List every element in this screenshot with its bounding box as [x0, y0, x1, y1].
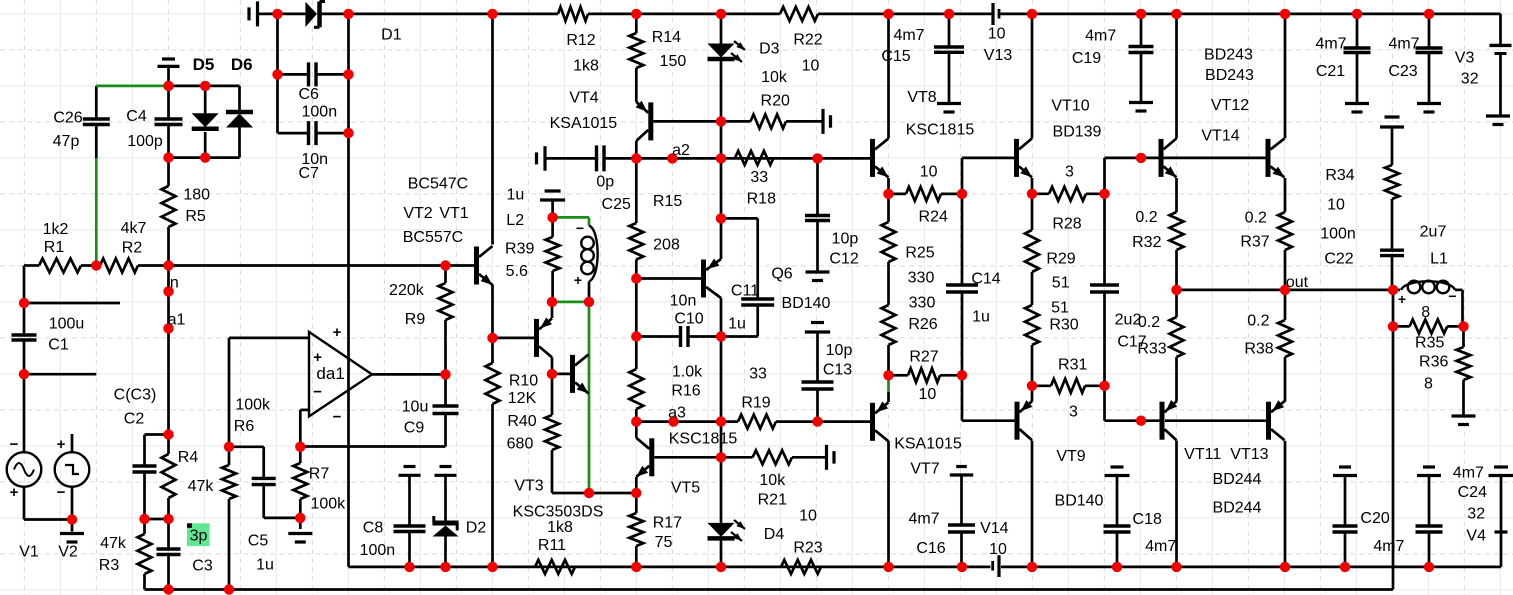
svg-text:C10: C10 [674, 311, 703, 328]
svg-text:V3: V3 [1455, 50, 1475, 67]
svg-text:R1: R1 [44, 239, 65, 256]
svg-text:R37: R37 [1240, 234, 1269, 251]
svg-text:10k: 10k [761, 69, 788, 86]
svg-text:C2: C2 [124, 411, 145, 428]
svg-text:KSC1815: KSC1815 [906, 122, 975, 139]
svg-text:−: − [57, 484, 66, 501]
svg-text:D4: D4 [764, 526, 785, 543]
svg-text:R14: R14 [652, 29, 681, 46]
svg-text:47k: 47k [188, 478, 215, 495]
svg-text:1u: 1u [728, 316, 746, 333]
svg-text:0.2: 0.2 [1245, 210, 1267, 227]
svg-text:C6: C6 [298, 86, 319, 103]
svg-text:100p: 100p [127, 133, 163, 150]
svg-text:R30: R30 [1049, 317, 1078, 334]
svg-text:VT9: VT9 [1056, 448, 1085, 465]
svg-text:3: 3 [1065, 164, 1074, 181]
svg-text:208: 208 [653, 237, 680, 254]
svg-text:33: 33 [750, 169, 768, 186]
svg-text:V2: V2 [58, 544, 78, 561]
svg-text:10: 10 [989, 541, 1007, 558]
svg-text:C3: C3 [192, 558, 213, 575]
svg-text:R24: R24 [919, 208, 948, 225]
svg-text:C13: C13 [823, 362, 852, 379]
svg-text:+: + [1398, 291, 1406, 307]
svg-text:R25: R25 [905, 245, 934, 262]
svg-text:12K: 12K [508, 390, 537, 407]
svg-text:0.2: 0.2 [1247, 313, 1269, 330]
svg-text:D6: D6 [231, 55, 253, 74]
svg-text:51: 51 [1052, 275, 1070, 292]
svg-text:4m7: 4m7 [1315, 35, 1346, 52]
svg-text:R39: R39 [505, 241, 534, 258]
svg-text:1u: 1u [256, 557, 274, 574]
svg-text:C20: C20 [1360, 510, 1389, 527]
svg-text:VT7: VT7 [910, 461, 939, 478]
svg-text:10p: 10p [832, 231, 859, 248]
svg-text:180: 180 [183, 187, 210, 204]
svg-text:KSC1815: KSC1815 [669, 431, 738, 448]
svg-text:C12: C12 [829, 251, 858, 268]
svg-text:C15: C15 [881, 48, 910, 65]
svg-text:33: 33 [749, 366, 767, 383]
svg-text:−: − [1448, 288, 1456, 304]
svg-text:R35: R35 [1415, 335, 1444, 352]
svg-text:BD140: BD140 [782, 295, 831, 312]
svg-text:R33: R33 [1137, 341, 1166, 358]
svg-text:R22: R22 [793, 32, 822, 49]
svg-text:4m7: 4m7 [1388, 35, 1419, 52]
svg-text:R7: R7 [309, 466, 330, 483]
svg-text:3p: 3p [190, 528, 208, 545]
svg-text:BD140: BD140 [1055, 493, 1104, 510]
svg-text:4m7: 4m7 [908, 511, 939, 528]
svg-text:R6: R6 [234, 418, 255, 435]
svg-text:R3: R3 [99, 557, 120, 574]
svg-text:4m7: 4m7 [1145, 538, 1176, 555]
svg-text:10: 10 [988, 25, 1006, 42]
svg-text:D1: D1 [381, 26, 402, 43]
svg-text:out: out [1286, 274, 1309, 291]
svg-text:R23: R23 [793, 540, 822, 557]
svg-text:−: − [576, 220, 584, 236]
svg-text:R5: R5 [185, 208, 206, 225]
svg-text:C16: C16 [916, 540, 945, 557]
svg-text:C4: C4 [126, 108, 147, 125]
svg-text:VT11: VT11 [1184, 446, 1221, 463]
svg-text:32: 32 [1461, 71, 1479, 88]
svg-text:1k8: 1k8 [547, 519, 573, 536]
svg-text:VT12: VT12 [1211, 97, 1249, 114]
svg-text:+: + [333, 324, 342, 341]
svg-text:V13: V13 [984, 47, 1013, 64]
svg-text:Q6: Q6 [771, 266, 792, 283]
svg-text:4k7: 4k7 [121, 220, 147, 237]
svg-text:VT3: VT3 [514, 478, 543, 495]
svg-text:1k2: 1k2 [43, 221, 69, 238]
svg-text:10: 10 [802, 58, 820, 75]
svg-text:R16: R16 [671, 383, 700, 400]
svg-text:C26: C26 [53, 110, 82, 127]
svg-text:100u: 100u [49, 316, 85, 333]
svg-text:R34: R34 [1325, 167, 1354, 184]
svg-text:C22: C22 [1324, 251, 1353, 268]
svg-text:R15: R15 [653, 193, 682, 210]
svg-text:R36: R36 [1419, 353, 1448, 370]
svg-text:1k8: 1k8 [573, 58, 599, 75]
svg-text:10: 10 [919, 386, 937, 403]
svg-text:BD243: BD243 [1204, 47, 1253, 64]
svg-text:5.6: 5.6 [506, 263, 528, 280]
svg-text:330: 330 [908, 270, 935, 287]
svg-text:BC547C: BC547C [408, 176, 468, 193]
svg-text:−: − [10, 436, 19, 453]
svg-text:10p: 10p [826, 342, 853, 359]
svg-text:D3: D3 [759, 41, 780, 58]
svg-text:−: − [313, 384, 322, 401]
svg-text:R12: R12 [566, 32, 595, 49]
svg-text:C5: C5 [248, 533, 269, 550]
svg-text:0p: 0p [596, 173, 614, 190]
svg-text:KSA1015: KSA1015 [894, 436, 962, 453]
svg-text:1u: 1u [972, 309, 990, 326]
svg-text:4m7: 4m7 [1373, 538, 1404, 555]
svg-text:3: 3 [1069, 404, 1078, 421]
svg-text:C19: C19 [1072, 50, 1101, 67]
svg-text:680: 680 [507, 436, 534, 453]
svg-text:C25: C25 [602, 196, 631, 213]
svg-text:R2: R2 [122, 240, 143, 257]
svg-text:C23: C23 [1388, 63, 1417, 80]
svg-text:L1: L1 [1430, 251, 1448, 268]
svg-text:1u: 1u [507, 187, 525, 204]
svg-text:10k: 10k [759, 472, 786, 489]
svg-text:C9: C9 [404, 420, 425, 437]
svg-text:C24: C24 [1458, 484, 1487, 501]
svg-text:32: 32 [1467, 505, 1485, 522]
svg-text:a2: a2 [672, 142, 690, 159]
svg-text:in: in [166, 275, 178, 292]
svg-text:C14: C14 [971, 271, 1000, 288]
svg-text:R21: R21 [758, 492, 787, 509]
svg-text:R19: R19 [741, 395, 770, 412]
svg-text:VT2: VT2 [403, 205, 432, 222]
svg-text:R4: R4 [178, 449, 199, 466]
svg-text:BC557C: BC557C [403, 229, 463, 246]
svg-text:8: 8 [1424, 375, 1433, 392]
svg-text:10: 10 [1327, 197, 1345, 214]
svg-text:R17: R17 [653, 515, 682, 532]
svg-text:+: + [57, 436, 66, 453]
svg-text:−: − [333, 409, 342, 426]
svg-text:R10: R10 [509, 373, 538, 390]
svg-text:BD139: BD139 [1053, 124, 1102, 141]
svg-text:R9: R9 [405, 311, 426, 328]
svg-text:10: 10 [920, 164, 938, 181]
svg-text:C18: C18 [1133, 511, 1162, 528]
svg-text:4m7: 4m7 [1085, 28, 1116, 45]
svg-text:VT4: VT4 [569, 90, 598, 107]
svg-text:a1: a1 [168, 312, 186, 329]
svg-text:150: 150 [660, 53, 687, 70]
svg-text:D2: D2 [466, 520, 487, 537]
svg-text:R40: R40 [507, 413, 536, 430]
svg-text:BD244: BD244 [1213, 471, 1262, 488]
svg-text:VT8: VT8 [907, 89, 936, 106]
svg-text:1.0k: 1.0k [672, 364, 703, 381]
svg-text:V1: V1 [19, 544, 39, 561]
svg-text:R32: R32 [1132, 234, 1161, 251]
svg-text:R26: R26 [908, 316, 937, 333]
svg-text:4m7: 4m7 [893, 27, 924, 44]
svg-text:C7: C7 [298, 165, 319, 182]
svg-text:R11: R11 [538, 537, 566, 554]
svg-text:V4: V4 [1466, 528, 1486, 545]
svg-text:0.2: 0.2 [1135, 209, 1157, 226]
svg-text:C11: C11 [731, 283, 759, 300]
svg-text:100n: 100n [1320, 226, 1356, 243]
svg-text:0.2: 0.2 [1138, 314, 1160, 331]
svg-text:R20: R20 [761, 93, 790, 110]
svg-text:10u: 10u [402, 399, 429, 416]
svg-text:KSC3503DS: KSC3503DS [513, 504, 604, 521]
svg-text:+: + [313, 349, 322, 366]
svg-text:8: 8 [1421, 304, 1430, 321]
svg-text:2u7: 2u7 [1420, 224, 1447, 241]
svg-text:330: 330 [909, 295, 936, 312]
svg-text:BD244: BD244 [1213, 500, 1262, 517]
svg-text:VT1: VT1 [439, 205, 468, 222]
svg-text:R28: R28 [1052, 216, 1081, 233]
svg-text:75: 75 [655, 534, 673, 551]
svg-text:D5: D5 [193, 55, 215, 74]
svg-text:a3: a3 [668, 405, 686, 422]
svg-text:220k: 220k [389, 282, 425, 299]
svg-text:R29: R29 [1046, 251, 1075, 268]
svg-text:VT13: VT13 [1230, 446, 1268, 463]
svg-text:4m7: 4m7 [1453, 465, 1484, 482]
svg-text:C1: C1 [48, 337, 69, 354]
svg-text:10: 10 [799, 508, 817, 525]
svg-text:R27: R27 [909, 349, 938, 366]
svg-text:100k: 100k [310, 495, 346, 512]
svg-text:C(C3): C(C3) [114, 387, 157, 404]
svg-text:VT14: VT14 [1201, 128, 1239, 145]
svg-text:47p: 47p [53, 133, 80, 150]
svg-text:KSA1015: KSA1015 [550, 115, 618, 132]
svg-text:C21: C21 [1316, 63, 1345, 80]
svg-text:R18: R18 [747, 190, 776, 207]
svg-text:100n: 100n [302, 104, 338, 121]
svg-text:51: 51 [1051, 300, 1069, 317]
svg-text:V14: V14 [980, 520, 1009, 537]
svg-text:R31: R31 [1058, 357, 1087, 374]
svg-text:47k: 47k [100, 535, 127, 552]
svg-text:+: + [574, 272, 582, 288]
svg-text:VT10: VT10 [1051, 98, 1089, 115]
svg-text:10n: 10n [670, 293, 697, 310]
svg-text:100n: 100n [360, 542, 396, 559]
svg-text:BD243: BD243 [1205, 67, 1254, 84]
svg-text:+: + [10, 484, 19, 501]
svg-text:C8: C8 [363, 520, 384, 537]
svg-text:100k: 100k [235, 397, 271, 414]
svg-text:da1: da1 [316, 364, 344, 383]
svg-text:L2: L2 [506, 212, 524, 229]
svg-text:VT5: VT5 [671, 480, 700, 497]
svg-text:R38: R38 [1244, 341, 1273, 358]
